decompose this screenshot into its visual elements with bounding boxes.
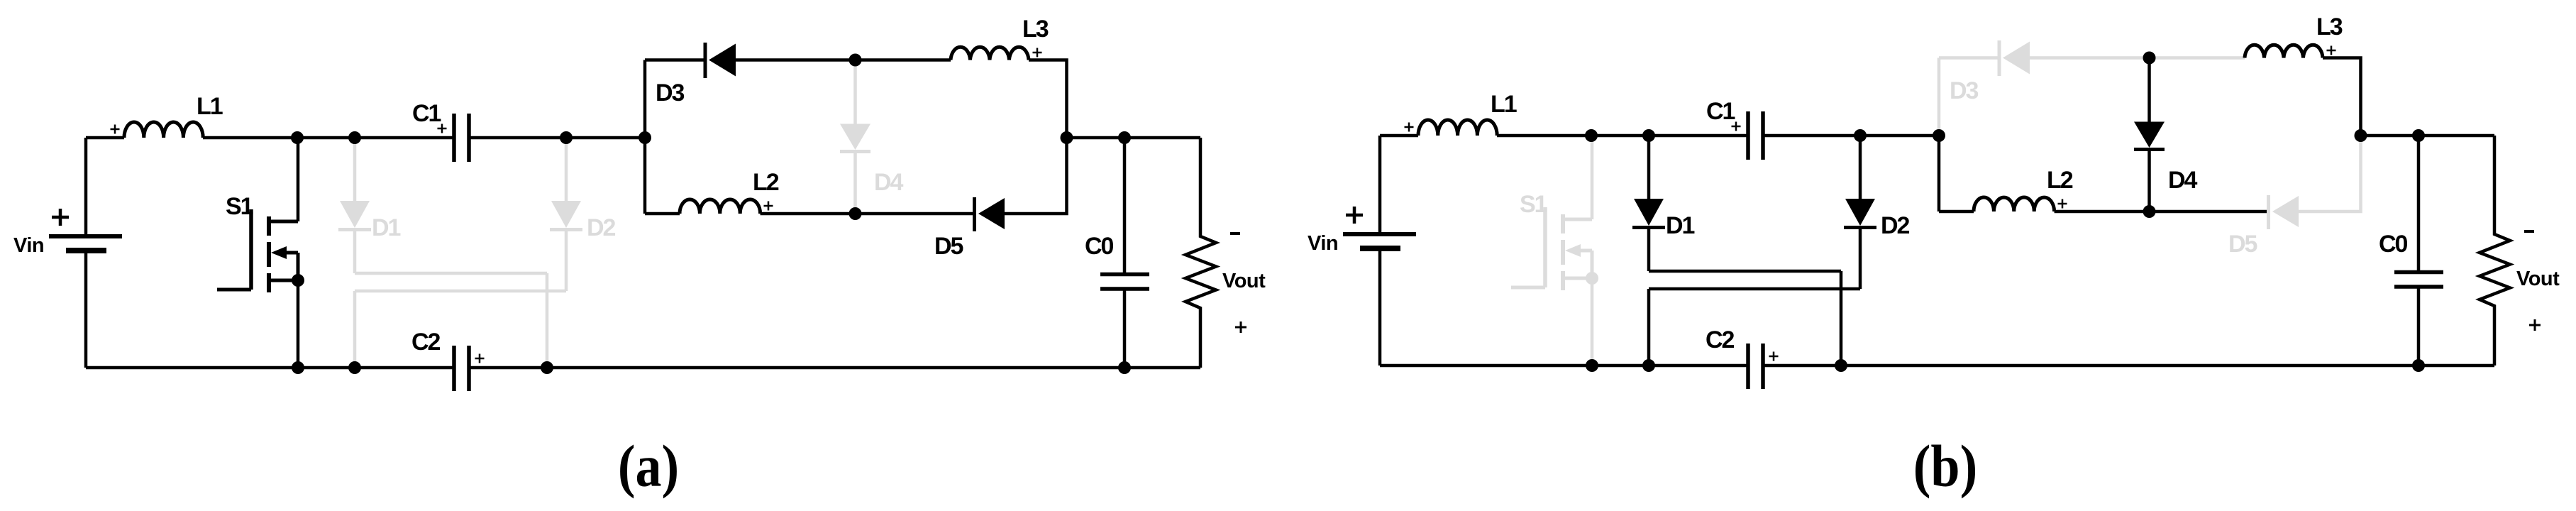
label Vin (a)	[13, 234, 44, 257]
wire bridge left vertical upper (b)	[1937, 58, 1941, 136]
battery plus sign (b)	[1346, 207, 1363, 224]
wire bottom rail right + vertical to output node (b)	[2299, 136, 2361, 211]
wire top rail left (b)	[1939, 56, 1999, 60]
node S1 drain on top wire (b)	[1585, 129, 1598, 142]
svg-text:Vout: Vout	[2516, 268, 2560, 290]
node D2 return on bottom wire (b)	[1642, 359, 1655, 372]
label D1 (a)	[372, 214, 401, 241]
label D2 (a)	[587, 214, 616, 241]
label S1 (a)	[226, 193, 253, 220]
svg-text:(a): (a)	[618, 434, 679, 499]
diode D4 (b)	[2134, 58, 2165, 212]
label D4 (b)	[2168, 167, 2198, 194]
node D4 anode (a)	[849, 54, 862, 67]
svg-text:Vout: Vout	[1222, 270, 1266, 292]
svg-text:D2: D2	[1881, 212, 1910, 239]
svg-text:D3: D3	[656, 79, 685, 106]
wire bottom right (a)	[469, 366, 1200, 370]
capacitor C1 (b)	[1748, 111, 1763, 160]
battery Vin (a)	[49, 138, 122, 368]
capacitor C2 plus (a)	[475, 354, 485, 363]
label Vin (b)	[1308, 232, 1338, 255]
resistor Vout plus (a)	[1235, 322, 1246, 333]
label D1 (b)	[1666, 212, 1695, 239]
node D1 return on bottom wire (a)	[541, 361, 553, 374]
svg-text:L2: L2	[753, 169, 779, 196]
capacitor C1 plus (a)	[438, 124, 447, 133]
inductor L1 polarity plus (a)	[111, 125, 120, 134]
svg-text:D3: D3	[1950, 77, 1979, 104]
node D2 anode on top wire (b)	[1854, 129, 1867, 142]
wire top mid (b)	[1763, 134, 1939, 138]
svg-text:L1: L1	[197, 93, 223, 120]
inductor L1 polarity plus (b)	[1405, 123, 1414, 132]
label L3 (a)	[1022, 16, 1049, 43]
wire bottom rail mid (a)	[761, 212, 975, 216]
label L3 (b)	[2316, 13, 2343, 40]
svg-text:L2: L2	[2047, 167, 2073, 194]
capacitor C1 (a)	[454, 114, 469, 162]
inductor L2 (a)	[680, 199, 761, 214]
wire top-left with inductor L1 (b)	[1380, 120, 1748, 136]
svg-text:Vin: Vin	[13, 234, 44, 257]
svg-text:C1: C1	[412, 100, 441, 127]
svg-text:C1: C1	[1706, 98, 1735, 125]
wire bridge left vertical upper (a)	[643, 60, 647, 138]
resistor Vout (a)	[1185, 138, 1216, 368]
wire top rail mid (b)	[2030, 56, 2245, 60]
battery Vin (b)	[1343, 136, 1416, 366]
node D1 return on bottom wire (b)	[1835, 359, 1847, 372]
svg-text:C2: C2	[411, 329, 441, 356]
wire S1 drain (b)	[1591, 136, 1594, 219]
svg-text:C0: C0	[2379, 231, 2408, 258]
diode D5 (b)	[2269, 195, 2299, 229]
wire top rail right + right vertical (a)	[1029, 60, 1067, 138]
node D4 cathode (b)	[2143, 205, 2156, 218]
wire S1 source to bottom (b)	[1591, 278, 1594, 366]
resistor Vout (b)	[2480, 136, 2510, 366]
svg-text:D2: D2	[587, 214, 616, 241]
wire bridge left vertical lower (b)	[1937, 136, 1941, 211]
resistor Vout minus (a)	[1230, 232, 1240, 235]
label L2 (b)	[2047, 167, 2073, 194]
wire top rail right + right vertical (b)	[2323, 58, 2361, 136]
wire D2 cross-over (b)	[1649, 289, 1860, 366]
label D3 (b)	[1950, 77, 1979, 104]
svg-text:D1: D1	[1666, 212, 1695, 239]
wire bottom rail left (b)	[1939, 210, 1974, 214]
node D4 cathode (a)	[849, 207, 862, 220]
label D5 (b)	[2228, 231, 2257, 258]
label D5 (a)	[934, 233, 963, 260]
wire bottom rail right + vertical to output node (a)	[1005, 138, 1067, 214]
label C1 (b)	[1706, 98, 1735, 125]
capacitor C2 plus (b)	[1769, 352, 1779, 361]
svg-text:D1: D1	[372, 214, 401, 241]
node C0 top (b)	[2412, 129, 2425, 142]
svg-text:S1: S1	[226, 193, 253, 220]
svg-text:D5: D5	[2228, 231, 2257, 258]
wire S1 source to bottom (a)	[297, 280, 300, 368]
svg-text:D4: D4	[874, 169, 904, 196]
resistor Vout minus (b)	[2524, 230, 2534, 233]
node bridge output (b)	[2355, 129, 2367, 142]
wire D1 cross-over (b)	[1649, 271, 1841, 366]
svg-text:S1: S1	[1520, 191, 1547, 218]
label D3 (a)	[656, 79, 685, 106]
transistor S1 (a)	[217, 209, 298, 292]
node bridge output (a)	[1061, 131, 1073, 144]
wire D1 cross-over (a)	[355, 273, 547, 368]
label S1 (b)	[1520, 191, 1547, 218]
label L1 (b)	[1491, 91, 1517, 118]
node bridge input (a)	[639, 131, 651, 144]
node C0 bottom (a)	[1118, 361, 1131, 374]
svg-text:(b): (b)	[1913, 434, 1977, 499]
transistor S1 (b)	[1511, 207, 1592, 290]
wire bridge left vertical lower (a)	[643, 138, 647, 214]
svg-text:D5: D5	[934, 233, 963, 260]
svg-text:Vin: Vin	[1308, 232, 1338, 255]
node D1 anode on top wire (a)	[348, 131, 361, 144]
svg-text:L3: L3	[1022, 16, 1049, 43]
label Vout (b)	[2516, 268, 2560, 290]
wire output top (b)	[2361, 134, 2495, 138]
resistor Vout plus (b)	[2529, 319, 2541, 331]
wire top rail left (a)	[645, 58, 705, 62]
diode D2 (b)	[1844, 136, 1876, 289]
wire S1 drain (a)	[297, 138, 300, 221]
caption (a)	[618, 434, 679, 499]
label D4 (a)	[874, 169, 904, 196]
diode D2 (a)	[550, 138, 582, 291]
node C0 top (a)	[1118, 131, 1131, 144]
wire bottom left (b)	[1380, 364, 1748, 368]
capacitor C2 (b)	[1748, 344, 1763, 389]
capacitor C0 (b)	[2394, 136, 2443, 366]
diode D3 (a)	[705, 43, 736, 78]
capacitor C1 plus (b)	[1732, 122, 1741, 131]
label C1 (a)	[412, 100, 441, 127]
label C2 (b)	[1706, 326, 1735, 353]
diode D1 (b)	[1632, 136, 1665, 271]
label C0 (a)	[1085, 233, 1114, 260]
wire bottom left (a)	[86, 366, 454, 370]
inductor L3 (b)	[2245, 45, 2323, 57]
node S1 source (b)	[1586, 272, 1598, 285]
node S1 drain on top wire (a)	[291, 131, 304, 144]
inductor L2 polarity plus (b)	[2058, 199, 2067, 209]
node S1 source on bottom wire (a)	[292, 361, 304, 374]
capacitor C0 (a)	[1100, 138, 1149, 368]
capacitor C2 (a)	[454, 346, 469, 391]
node D4 anode (b)	[2143, 52, 2156, 65]
node bridge input (b)	[1933, 129, 1945, 142]
wire output top (a)	[1067, 136, 1201, 140]
wire bottom right (b)	[1763, 364, 2494, 368]
diode D1 (a)	[338, 138, 371, 273]
svg-text:D4: D4	[2168, 167, 2198, 194]
inductor L3 polarity plus (b)	[2327, 46, 2336, 55]
wire bottom rail left (a)	[645, 212, 680, 216]
node D2 return on bottom wire (a)	[348, 361, 361, 374]
label L2 (a)	[753, 169, 779, 196]
wire top mid (a)	[469, 136, 645, 140]
node D2 anode on top wire (a)	[560, 131, 573, 144]
inductor L2 polarity plus (a)	[764, 202, 773, 211]
inductor L3 (a)	[951, 47, 1029, 60]
wire bottom rail mid (b)	[2055, 210, 2269, 214]
diode D4 (a)	[840, 60, 870, 214]
diode D5 (a)	[975, 197, 1005, 231]
svg-text:C0: C0	[1085, 233, 1114, 260]
label L1 (a)	[197, 93, 223, 120]
battery plus sign (a)	[52, 209, 69, 226]
wire top rail mid (a)	[736, 58, 951, 62]
wire top-left with inductor L1 (a)	[86, 122, 454, 138]
caption (b)	[1913, 434, 1977, 499]
node S1 source on bottom wire (b)	[1586, 359, 1598, 372]
label Vout (a)	[1222, 270, 1266, 292]
svg-text:L1: L1	[1491, 91, 1517, 118]
diode D3 (b)	[1999, 40, 2030, 76]
inductor L2 (b)	[1974, 197, 2055, 211]
svg-text:C2: C2	[1706, 326, 1735, 353]
label D2 (b)	[1881, 212, 1910, 239]
node S1 source (a)	[292, 274, 304, 287]
svg-text:L3: L3	[2316, 13, 2343, 40]
label C0 (b)	[2379, 231, 2408, 258]
label C2 (a)	[411, 329, 441, 356]
inductor L3 polarity plus (a)	[1033, 48, 1042, 57]
node C0 bottom (b)	[2412, 359, 2425, 372]
wire D2 cross-over (a)	[355, 291, 566, 368]
node D1 anode on top wire (b)	[1642, 129, 1655, 142]
